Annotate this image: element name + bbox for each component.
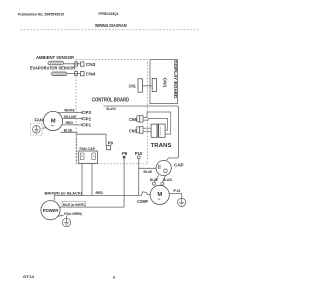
connector CN4 (81, 72, 85, 76)
svg-text:BLACK: BLACK (163, 178, 172, 182)
svg-text:P3: P3 (86, 110, 92, 115)
wire ambient sensor to CN3 (64, 63, 81, 65)
wire fan cap terminal 3 down to power line (81, 163, 83, 195)
ambient sensor element (48, 61, 64, 65)
wire compressor to frame ground F.G (169, 194, 182, 199)
svg-text:BLUE: BLUE (64, 129, 73, 133)
svg-text:CN4: CN4 (86, 72, 96, 77)
display board outline (150, 60, 178, 104)
compressor motor COMP (150, 185, 169, 204)
wire power ground yellow/green (57, 215, 63, 216)
svg-text:POWER: POWER (43, 208, 59, 213)
svg-text:FFRE1033Q1: FFRE1033Q1 (99, 12, 119, 16)
wire CN1 to display board (143, 85, 153, 87)
wire P8 down to neutral (123, 158, 125, 207)
wire yellow fan to P2 (62, 118, 82, 120)
fan motor M1 (43, 111, 62, 130)
wire blue fan to fan cap (61, 131, 77, 133)
svg-text:BROWN (or BLACK): BROWN (or BLACK) (45, 192, 83, 196)
svg-text:BLUE: BLUE (150, 178, 159, 182)
svg-text:F.G: F.G (173, 189, 180, 193)
wire P10 down to compressor line (138, 159, 140, 196)
wire evaporator sensor to CN4 (67, 73, 81, 75)
svg-text:WHITE: WHITE (64, 109, 75, 113)
pin P3 (81, 111, 83, 114)
overload protector (142, 192, 151, 196)
connector CN3 (81, 62, 85, 66)
wire fan motor to ground (42, 127, 47, 130)
wire power line brown (53, 195, 55, 200)
header dashed separator line (20, 29, 200, 31)
svg-text:P2: P2 (86, 116, 92, 121)
svg-text:AMBIENT SENSOR: AMBIENT SENSOR (36, 55, 75, 60)
svg-text:COMP: COMP (137, 199, 148, 204)
wire fan cap terminal 4 down to line (91, 163, 93, 195)
svg-text:BLACK: BLACK (107, 107, 117, 111)
svg-text:WIRING DIAGRAM: WIRING DIAGRAM (95, 23, 127, 28)
wires CN5 to transformer (143, 127, 151, 129)
svg-text:CAP: CAP (174, 162, 184, 167)
svg-text:RED: RED (66, 121, 74, 125)
power plug (41, 201, 60, 220)
svg-text:GT14: GT14 (23, 275, 34, 279)
wire capacitor to compressor terminals (154, 175, 159, 182)
svg-text:P1: P1 (86, 123, 92, 128)
pin P2 (81, 117, 83, 120)
svg-text:P10: P10 (135, 151, 143, 156)
wire white fan to P3 (58, 111, 83, 113)
compressor ground (178, 198, 186, 206)
pin P1 (81, 123, 83, 126)
svg-text:P9: P9 (108, 140, 114, 145)
svg-text:Publication No. 5995549915: Publication No. 5995549915 (18, 12, 64, 16)
svg-text:DISPLAY BOARD: DISPLAY BOARD (173, 60, 178, 99)
svg-text:BLUE (or WHITE): BLUE (or WHITE) (63, 203, 85, 207)
wire black bus from board to capacitor (103, 105, 178, 107)
run capacitor CAP (156, 160, 171, 175)
svg-text:FAN: FAN (35, 118, 44, 123)
wire fan circuit to P9 (77, 134, 106, 145)
svg-text:CN1: CN1 (163, 78, 168, 89)
wire CN6 wrap to secondary (143, 112, 171, 134)
wire red fan to P1 (62, 124, 82, 126)
transformer TRANS (151, 124, 157, 137)
svg-text:EVAPORATOR SENSOR: EVAPORATOR SENSOR (30, 66, 76, 71)
svg-text:~: ~ (51, 123, 54, 129)
fan motor ground (31, 124, 43, 136)
control board dashed outline (76, 60, 147, 164)
svg-text:CN3: CN3 (86, 62, 96, 67)
svg-text:BLUE: BLUE (144, 170, 153, 174)
svg-text:CONTROL BOARD: CONTROL BOARD (92, 97, 129, 103)
evaporator sensor element (52, 72, 68, 76)
svg-text:CN5: CN5 (129, 128, 137, 133)
svg-text:TRANS: TRANS (151, 143, 172, 149)
svg-text:Y/G(or GREEN): Y/G(or GREEN) (64, 212, 83, 216)
wire P10 branch to capacitor (139, 167, 157, 169)
power cord ground (66, 216, 68, 219)
svg-text:CN1: CN1 (129, 83, 137, 88)
wire power neutral blue (60, 206, 125, 208)
svg-text:FAN CAP.: FAN CAP. (80, 147, 96, 151)
connector CN1 on display board (152, 79, 156, 92)
svg-text:CN6: CN6 (129, 117, 137, 122)
svg-text:~: ~ (158, 197, 161, 203)
svg-text:RED: RED (96, 191, 104, 195)
svg-text:P8: P8 (122, 151, 128, 156)
svg-text:6: 6 (113, 276, 115, 280)
svg-text:YELLOW: YELLOW (64, 115, 77, 119)
